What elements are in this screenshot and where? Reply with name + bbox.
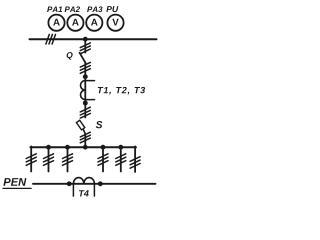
switch label Q — [67, 52, 73, 60]
label PA3 — [87, 6, 102, 12]
feeder 6 — [134, 146, 136, 172]
meter letter A — [72, 19, 79, 26]
fuse-switch S body — [76, 120, 84, 130]
wire: top supply line — [30, 38, 157, 40]
meter letter A — [53, 19, 60, 26]
switch label S — [96, 121, 103, 128]
meter letter A — [91, 19, 98, 26]
feeder 3 — [65, 145, 70, 150]
current transformer secondary bracket — [85, 80, 94, 82]
wire: drop to switch Q — [84, 39, 86, 52]
PEN underline — [3, 187, 31, 189]
wire: below S — [84, 134, 86, 147]
meter circle A x=75.4 — [67, 15, 83, 31]
switch Q blade — [80, 53, 86, 63]
node below current transformers — [83, 101, 88, 106]
node right of T4 — [98, 181, 103, 186]
transformer T4 secondary bracket — [72, 184, 74, 196]
three-phase marks on supply line — [46, 34, 56, 44]
node above current transformers — [83, 74, 88, 79]
transformer T4 primary humps — [73, 178, 94, 184]
three-phase marks above S — [80, 107, 90, 118]
label T1, T2, T3 — [98, 87, 145, 95]
wire: below CT — [84, 103, 86, 118]
node: S to bus junction — [83, 145, 88, 150]
feeder 5 — [118, 145, 123, 150]
current transformer T1,T2,T3 primary — [84, 77, 86, 103]
meter circle V x=115.5 — [107, 15, 123, 31]
meter letter V — [112, 19, 118, 26]
feeder 1 — [30, 146, 32, 171]
wire: lower distribution bus — [30, 146, 136, 148]
fuse-switch S blade stub — [83, 129, 85, 134]
three-phase marks below S — [80, 132, 90, 143]
meter circle A x=94.3 — [86, 15, 102, 31]
feeder 2 — [46, 145, 51, 150]
wire: below Q — [84, 63, 86, 77]
three-phase marks below Q — [80, 62, 90, 73]
three-phase marks above Q — [80, 43, 90, 54]
meter circle A x=56.5 — [48, 15, 64, 31]
node: supply junction — [83, 37, 88, 42]
label PEN — [3, 178, 26, 186]
label PA2 — [65, 6, 80, 12]
label PU — [106, 6, 118, 12]
label PA1 — [47, 7, 62, 13]
label T4 — [79, 190, 89, 196]
wire: PEN conductor — [33, 183, 156, 185]
feeder 4 — [101, 145, 106, 150]
node left of T4 — [67, 181, 72, 186]
